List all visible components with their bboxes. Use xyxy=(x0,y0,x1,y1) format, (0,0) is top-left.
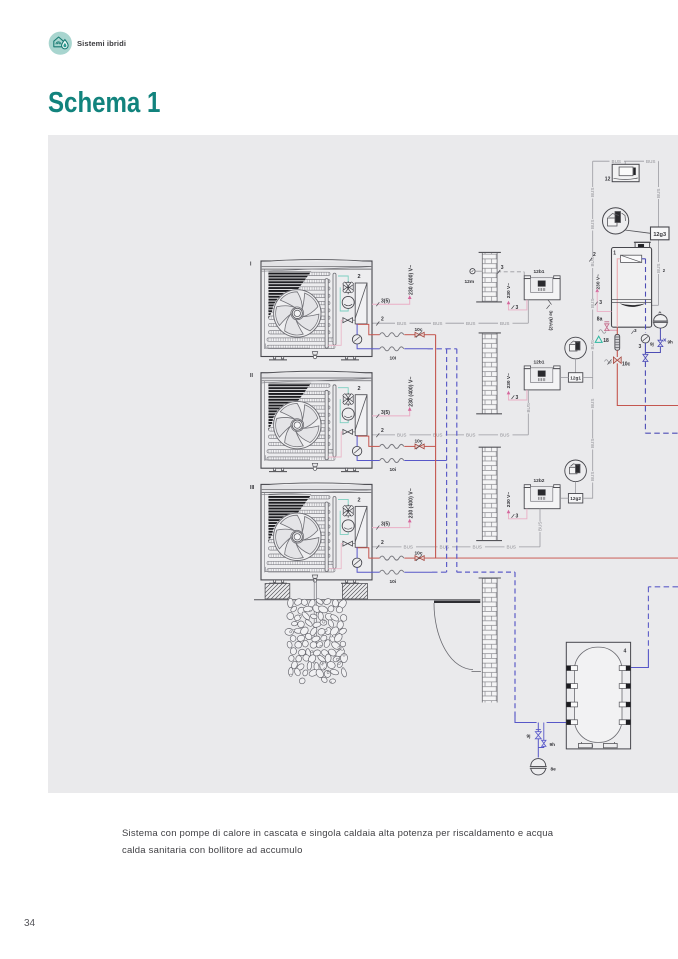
dirt filter on boiler return xyxy=(615,335,620,351)
ground line xyxy=(254,599,480,601)
svg-text:3e (MA2): 3e (MA2) xyxy=(548,311,554,331)
control unit 12b1 (1) xyxy=(524,276,560,300)
pipe: return (blue) unit II with flex 10i xyxy=(372,458,404,462)
wire: BUS line level 1 xyxy=(372,321,528,326)
wire: BUS stub 12b1-1 xyxy=(527,300,529,323)
svg-text:230 V~: 230 V~ xyxy=(506,373,512,389)
valve (blue, vertical bowtie) xyxy=(643,354,648,361)
svg-text:10c: 10c xyxy=(415,439,423,445)
diagram background panel xyxy=(48,135,678,793)
svg-text:9j: 9j xyxy=(650,341,654,346)
svg-text:1: 1 xyxy=(613,251,616,257)
room sensor 12g2 xyxy=(565,460,587,494)
pipe: unit I blue to manifold (dashed) xyxy=(404,348,427,350)
pipe: vessel stem + 9j 9h xyxy=(645,329,666,353)
svg-text:BUS: BUS xyxy=(590,472,595,481)
svg-text:BUS: BUS xyxy=(397,321,406,326)
logo: Sistemi ibridi xyxy=(44,27,84,67)
svg-text:3(5): 3(5) xyxy=(381,522,390,528)
svg-text:BUS: BUS xyxy=(656,264,661,273)
label box 12g2 xyxy=(568,494,582,504)
brick wall segment 3 xyxy=(476,447,502,540)
svg-text:4: 4 xyxy=(624,649,627,655)
brick wall segment 2 xyxy=(476,333,502,414)
svg-text:12b1: 12b1 xyxy=(534,269,545,275)
svg-text:12: 12 xyxy=(605,177,611,183)
svg-text:BUS: BUS xyxy=(473,545,482,550)
pipe: boiler return internal (blue dashed) xyxy=(642,258,646,260)
control panel 12 xyxy=(612,164,639,181)
tank port row 3 xyxy=(567,702,631,707)
pipe: heating flow (red) unit I with flex 10i and valve 10c xyxy=(372,331,424,337)
svg-text:3(5): 3(5) xyxy=(381,298,390,304)
boiler pump 3 xyxy=(641,335,649,343)
pipe: unit I red to trunk xyxy=(424,334,435,336)
svg-text:9h: 9h xyxy=(550,742,556,748)
svg-text:BUS: BUS xyxy=(590,257,595,266)
wire: 230V supply to 12b2 xyxy=(507,509,527,519)
svg-text:18: 18 xyxy=(603,338,609,344)
condensate drain pipe xyxy=(314,580,316,647)
svg-text:BUS: BUS xyxy=(538,522,543,531)
svg-text:BUS: BUS xyxy=(466,433,475,438)
svg-text:BUS: BUS xyxy=(656,189,661,198)
expansion vessel 8e xyxy=(530,759,547,775)
pipe: unit II red to trunk xyxy=(424,445,435,447)
concrete block left under unit III xyxy=(265,584,290,599)
pipe: blue trunk vertical left (dashed) xyxy=(446,349,448,572)
brick wall segment 1 xyxy=(476,252,502,302)
svg-text:10c: 10c xyxy=(415,327,423,333)
svg-text:10i: 10i xyxy=(390,579,397,585)
svg-text:3: 3 xyxy=(516,305,519,311)
wire: BUS line level 3 xyxy=(372,545,540,550)
valve 10c (boiler) xyxy=(605,357,622,365)
svg-text:230 V~: 230 V~ xyxy=(506,283,512,299)
svg-text:BUS: BUS xyxy=(590,399,595,408)
svg-text:9h: 9h xyxy=(668,340,674,345)
wire: 230V power line unit III xyxy=(372,519,412,530)
wire: 230V power line unit II xyxy=(372,407,412,418)
svg-text:3(5): 3(5) xyxy=(381,410,390,416)
svg-text:3: 3 xyxy=(501,265,504,271)
svg-text:III: III xyxy=(250,485,255,491)
check valve 9h (tank) xyxy=(538,723,546,748)
svg-text:BUS: BUS xyxy=(500,433,509,438)
door leaf xyxy=(434,601,480,603)
valve 9j (tank) xyxy=(535,723,541,758)
svg-text:BUS: BUS xyxy=(507,545,516,550)
door swing arc xyxy=(434,603,473,670)
svg-text:12g2: 12g2 xyxy=(570,496,581,501)
boiler flue xyxy=(635,242,650,247)
svg-text:12g3: 12g3 xyxy=(653,232,666,238)
svg-text:230 (400) V~: 230 (400) V~ xyxy=(408,488,414,518)
pipe: blue to tank lower port xyxy=(515,717,537,723)
svg-text:2: 2 xyxy=(593,252,596,258)
heat pump unit I xyxy=(261,260,373,360)
svg-text:2: 2 xyxy=(381,428,384,434)
pipe: return (blue) unit III with flex 10i xyxy=(372,570,404,574)
boiler 1 xyxy=(612,248,652,328)
svg-text:BUS: BUS xyxy=(500,321,509,326)
wire tick on BUS unit III xyxy=(376,545,379,549)
svg-text:8a: 8a xyxy=(597,316,603,322)
page title xyxy=(48,87,160,120)
gravel soakaway pit xyxy=(285,597,348,685)
boiler heat exchanger xyxy=(621,255,642,262)
concrete block right under unit III xyxy=(342,584,367,599)
svg-text:BUS: BUS xyxy=(646,159,655,164)
wire: 12m dashed link xyxy=(497,271,524,273)
svg-text:BUS: BUS xyxy=(440,545,449,550)
svg-text:12m: 12m xyxy=(465,279,475,285)
control unit 12b1 (2) xyxy=(524,366,560,390)
callout line 12g3 xyxy=(625,230,651,233)
pipe: blue trunk vertical right (dashed) xyxy=(456,349,458,572)
svg-text:230 (400) V~: 230 (400) V~ xyxy=(408,377,414,407)
svg-text:BUS: BUS xyxy=(526,403,531,412)
pipe: blue below pump with valve xyxy=(644,343,646,354)
wire: 12g1 links xyxy=(560,376,568,378)
pipe: blue dashed to right edge xyxy=(644,362,646,434)
heat pump unit II xyxy=(261,371,373,471)
boiler mid band xyxy=(612,298,652,300)
svg-text:2: 2 xyxy=(381,317,384,323)
tank port row 4 xyxy=(567,720,631,725)
svg-text:8e: 8e xyxy=(551,767,557,773)
tank port row 1 xyxy=(567,666,631,671)
pipe: unit III red line to right edge xyxy=(424,557,678,559)
wire tick on BUS unit II xyxy=(376,433,379,437)
pipe: return (blue) unit I with flex 10i xyxy=(372,347,404,351)
control unit 12b2 (3) xyxy=(524,485,560,509)
svg-text:BUS: BUS xyxy=(433,321,442,326)
svg-text:3: 3 xyxy=(634,328,637,333)
label 3e (MA2) xyxy=(548,300,552,305)
wire: 230V supply to 12b1 xyxy=(507,390,527,400)
wire: 12g2 links xyxy=(560,497,568,499)
svg-text:BUS: BUS xyxy=(466,321,475,326)
svg-text:12b2: 12b2 xyxy=(534,478,545,484)
pipe: red trunk vertical xyxy=(435,335,437,558)
svg-text:BUS: BUS xyxy=(590,220,595,229)
svg-text:3: 3 xyxy=(516,514,519,520)
svg-text:10i: 10i xyxy=(390,467,397,473)
svg-text:10i: 10i xyxy=(390,356,397,362)
svg-text:3: 3 xyxy=(639,344,642,350)
wire: 230V supply to 12b1 xyxy=(507,300,527,310)
pipe: boiler flow down and to right edge xyxy=(617,350,678,405)
room sensor 12g1 xyxy=(565,337,587,373)
wire: top BUS line xyxy=(593,159,659,164)
svg-text:10c: 10c xyxy=(622,362,631,368)
expansion vessel (boiler) xyxy=(653,312,668,328)
svg-text:3: 3 xyxy=(516,395,519,401)
svg-text:9j: 9j xyxy=(527,734,531,740)
svg-text:BUS: BUS xyxy=(433,433,442,438)
svg-text:230 (400) V~: 230 (400) V~ xyxy=(408,265,414,295)
pipe: unit II blue to manifold xyxy=(404,460,446,462)
pipe: unit III blue to manifold xyxy=(404,571,432,573)
heat pump unit III xyxy=(261,483,373,583)
wire tick on BUS unit I xyxy=(376,322,379,326)
wire: vertical BUS line (system bus) xyxy=(590,161,595,498)
svg-text:BUS: BUS xyxy=(612,159,621,164)
wire: 230V power line unit I xyxy=(372,295,412,306)
svg-text:BUS: BUS xyxy=(590,340,595,349)
label box 12g1 xyxy=(568,373,582,383)
label box 12g3 xyxy=(651,227,670,240)
wire: BUS right vertical xyxy=(658,161,660,187)
wire: BUS stub 12b1-2 xyxy=(527,390,529,403)
pipe: heating flow (red) unit III with flex 10i and valve 10c xyxy=(372,555,424,561)
svg-text:10c: 10c xyxy=(415,550,423,556)
pipe: blue dashed return from right edge to tank xyxy=(648,586,678,588)
warning triangle 18 xyxy=(595,336,602,342)
wire: BUS line level 2 xyxy=(372,433,528,438)
sensor 12m xyxy=(470,269,475,274)
svg-text:BUS: BUS xyxy=(590,188,595,197)
svg-text:12b1: 12b1 xyxy=(534,359,545,365)
boiler burner xyxy=(620,303,646,307)
svg-text:12g1: 12g1 xyxy=(570,375,581,380)
svg-text:2: 2 xyxy=(381,540,384,546)
svg-text:230 V~: 230 V~ xyxy=(596,274,602,290)
wire: BUS stub 12b2 xyxy=(539,509,541,522)
svg-text:BUS: BUS xyxy=(590,299,595,308)
pipe: heating flow (red) unit II with flex 10i and valve 10c xyxy=(372,443,424,449)
storage tank 4 xyxy=(566,642,630,749)
brick wall segment 4 xyxy=(479,578,501,703)
svg-text:230 V~: 230 V~ xyxy=(506,492,512,508)
svg-text:BUS: BUS xyxy=(404,545,413,550)
pipe: boiler flow internal (pink) xyxy=(617,259,620,327)
pipe: blue manifold to storage (dashed) xyxy=(457,572,515,716)
tank port row 2 xyxy=(567,684,631,689)
room sensor 12g3 xyxy=(603,208,629,234)
safety valve 8a xyxy=(599,322,618,334)
svg-text:3: 3 xyxy=(599,300,602,306)
svg-text:BUS: BUS xyxy=(397,433,406,438)
svg-text:BUS: BUS xyxy=(590,439,595,448)
